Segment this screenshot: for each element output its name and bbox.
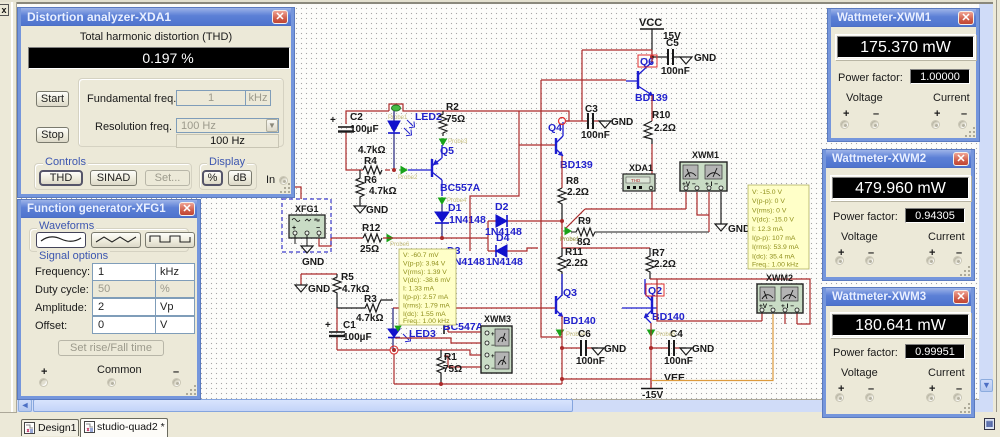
svg-text:R11: R11 xyxy=(565,247,583,258)
ground C6 xyxy=(592,344,626,355)
svg-text:4.7kΩ: 4.7kΩ xyxy=(369,186,396,197)
svg-text:2.2Ω: 2.2Ω xyxy=(654,123,676,134)
VCC rail xyxy=(639,17,681,50)
svg-text:R9: R9 xyxy=(578,216,591,227)
tooltip 1 (left) xyxy=(399,249,456,325)
svg-text:V: -60.7 mV: V: -60.7 mV xyxy=(403,252,439,259)
svg-text:Probe6: Probe6 xyxy=(390,242,410,248)
svg-text:C5: C5 xyxy=(666,38,679,49)
svg-text:25Ω: 25Ω xyxy=(360,244,379,255)
svg-text:100nF: 100nF xyxy=(664,356,693,367)
orange wire VEE to XWM2 xyxy=(652,314,773,381)
svg-text:+: + xyxy=(491,332,495,338)
svg-text:GND: GND xyxy=(366,205,388,216)
svg-text:Freq.: 1.00 kHz: Freq.: 1.00 kHz xyxy=(403,318,450,325)
capacitor C4 xyxy=(651,329,693,367)
bottom tab bar xyxy=(0,412,1000,437)
svg-text:Q5: Q5 xyxy=(440,145,454,157)
svg-text:GND: GND xyxy=(611,117,633,128)
ground C3 xyxy=(599,117,633,128)
svg-text:+: + xyxy=(491,354,495,360)
resistor R3 xyxy=(337,294,393,324)
wire: staircase to Q4 base column xyxy=(470,111,556,251)
capacitor C3 xyxy=(566,104,610,141)
svg-text:XWM2: XWM2 xyxy=(766,273,793,283)
svg-text:−: − xyxy=(491,366,495,372)
resistor R4 xyxy=(358,145,385,174)
probe C4 xyxy=(648,330,677,338)
svg-text:R4: R4 xyxy=(364,156,377,167)
capacitor C1 xyxy=(325,308,372,350)
wire: vertical to R11 bus xyxy=(561,221,563,248)
capacitor C6 xyxy=(562,329,605,367)
svg-text:I: 1.33 mA: I: 1.33 mA xyxy=(403,286,434,293)
wire R7 bottom loop to XWM2 I- xyxy=(650,279,810,324)
svg-text:D4: D4 xyxy=(496,232,510,244)
wire: Q4 emitter to R8 xyxy=(561,156,563,188)
probe above D1 xyxy=(439,197,468,204)
svg-text:Probe5: Probe5 xyxy=(656,332,676,338)
resistor R9 xyxy=(571,216,709,248)
svg-text:100nF: 100nF xyxy=(576,356,605,367)
svg-text:THD: THD xyxy=(631,178,641,183)
svg-text:100nF: 100nF xyxy=(661,66,690,77)
instrument icon XWM2 xyxy=(757,273,803,313)
transistor Q2 (mirrored) xyxy=(622,279,685,323)
wire R12 to diode network xyxy=(383,237,488,239)
svg-text:Freq.: 1.00 kHz: Freq.: 1.00 kHz xyxy=(752,262,799,269)
vertical scrollbar sliver + down arrow xyxy=(979,4,993,412)
resistor R6 xyxy=(356,170,396,206)
diode D1 xyxy=(435,202,486,238)
junction D1 bottom xyxy=(440,236,444,240)
XWM1 terminal wires xyxy=(697,192,709,232)
svg-text:+: + xyxy=(330,115,336,126)
svg-text:Q3: Q3 xyxy=(563,287,577,299)
resistor R11 xyxy=(558,247,588,296)
svg-text:100µF: 100µF xyxy=(350,124,379,135)
resistor R5 + ground xyxy=(295,272,369,308)
transistor Q1 stub (hidden by tooltip) + label xyxy=(443,320,487,334)
svg-text:I(p-p): 107 mA: I(p-p): 107 mA xyxy=(752,235,796,242)
svg-text:4.7kΩ: 4.7kΩ xyxy=(358,145,385,156)
svg-text:XDA1: XDA1 xyxy=(629,163,653,173)
svg-text:R10: R10 xyxy=(652,110,671,121)
svg-text:100nF: 100nF xyxy=(581,130,610,141)
junction mid bus xyxy=(560,219,564,223)
resistor R10 xyxy=(644,110,676,144)
svg-text:Probe2: Probe2 xyxy=(398,175,418,181)
resistor R1 xyxy=(437,350,462,386)
stub wire near XDA1 dialog xyxy=(287,187,301,199)
wire VCC bus to Q6 xyxy=(582,50,652,57)
svg-text:I(rms): 1.79 mA: I(rms): 1.79 mA xyxy=(403,302,450,309)
tooltip 2 (right) xyxy=(748,185,809,269)
svg-text:I(rms): 53.9 mA: I(rms): 53.9 mA xyxy=(752,244,799,251)
resistor R8 xyxy=(558,176,589,221)
svg-text:V(p-p): 0 V: V(p-p): 0 V xyxy=(752,198,785,205)
svg-text:I(dc): 1.55 mA: I(dc): 1.55 mA xyxy=(403,311,446,318)
svg-text:75Ω: 75Ω xyxy=(443,364,462,375)
svg-text:75Ω: 75Ω xyxy=(446,114,465,125)
resistor R12 xyxy=(360,223,382,255)
resistor R2 xyxy=(439,102,465,136)
svg-text:2.2Ω: 2.2Ω xyxy=(566,258,588,269)
LED3 xyxy=(388,308,436,350)
wire: C2 bottom to R4 node xyxy=(346,131,390,170)
svg-text:I(dc): 35.4 mA: I(dc): 35.4 mA xyxy=(752,253,795,260)
svg-text:−: − xyxy=(491,343,495,349)
svg-text:I(p-p): 2.57 mA: I(p-p): 2.57 mA xyxy=(403,294,449,301)
wire Q3 emitter column xyxy=(561,316,563,384)
diode D3 labels (mostly hidden by tooltip) xyxy=(447,245,485,268)
node ring Q4 collector xyxy=(559,118,566,125)
diode D2 xyxy=(485,201,522,238)
instrument icon XFG1 with selection box xyxy=(282,199,331,252)
svg-text:V(dc): -15.0 V: V(dc): -15.0 V xyxy=(752,217,794,224)
svg-text:D2: D2 xyxy=(495,201,509,213)
wire: C2 top to R2 top (with probe bump) xyxy=(346,104,569,124)
ground C4 xyxy=(680,344,714,355)
ground R6 xyxy=(354,205,388,216)
capacitor C2 xyxy=(330,112,379,135)
main vertical bus x=541 xyxy=(541,80,555,308)
resistor R7 xyxy=(646,248,676,279)
diode D4 xyxy=(486,232,523,268)
diode network loop wires xyxy=(488,221,562,251)
svg-text:C1: C1 xyxy=(343,320,356,331)
svg-text:R3: R3 xyxy=(364,294,377,305)
svg-text:1N4148: 1N4148 xyxy=(449,214,486,226)
svg-text:XFG1: XFG1 xyxy=(295,204,319,214)
transistor Q4 xyxy=(548,122,593,171)
svg-text:V(rms): 0 V: V(rms): 0 V xyxy=(752,207,787,214)
svg-text:BC557A: BC557A xyxy=(440,182,481,194)
probe at Q5 base xyxy=(398,167,418,182)
svg-text:R7: R7 xyxy=(652,248,665,259)
instrument icon XWM1 xyxy=(680,150,727,191)
svg-text:XWM1: XWM1 xyxy=(692,150,719,160)
ground XFG1 xyxy=(301,246,324,268)
svg-text:BD140: BD140 xyxy=(563,315,596,327)
transistor Q6 xyxy=(626,56,668,104)
svg-text:I: 12.3 mA: I: 12.3 mA xyxy=(752,226,783,233)
svg-text:+: + xyxy=(325,320,331,331)
svg-text:V(rms): 1.39 V: V(rms): 1.39 V xyxy=(403,269,447,276)
svg-text:LED2: LED2 xyxy=(415,111,442,123)
probe below R2 xyxy=(440,138,469,145)
svg-text:2.2Ω: 2.2Ω xyxy=(567,187,589,198)
svg-text:R8: R8 xyxy=(566,176,579,187)
svg-text:GND: GND xyxy=(692,344,714,355)
svg-text:1N4148: 1N4148 xyxy=(486,256,523,268)
svg-text:2.2Ω: 2.2Ω xyxy=(654,259,676,270)
bus to XWM1 V+ xyxy=(585,192,686,209)
svg-text:R12: R12 xyxy=(362,223,381,234)
XWM3 terminal wires xyxy=(395,338,487,367)
transistor Q5 xyxy=(408,145,481,196)
svg-text:XWM3: XWM3 xyxy=(484,314,511,324)
vertical x=582 to C3 node xyxy=(581,50,583,121)
diagonal wire to top bus xyxy=(566,209,585,228)
svg-text:BD139: BD139 xyxy=(560,159,593,171)
wire Q6 collector / emitter xyxy=(651,57,653,121)
bus to R11/R7 tops xyxy=(562,247,650,249)
svg-text:R2: R2 xyxy=(446,102,459,113)
wire Q6 base xyxy=(541,79,626,81)
VEE rail xyxy=(641,372,685,401)
probe Q3 emitter xyxy=(557,330,587,338)
svg-text:R5: R5 xyxy=(341,272,354,283)
svg-text:VEE: VEE xyxy=(664,372,685,384)
ground XWM1 xyxy=(715,192,750,235)
svg-text:D1: D1 xyxy=(448,202,462,214)
selection box Q2 xyxy=(646,284,664,296)
svg-text:4.7kΩ: 4.7kΩ xyxy=(356,313,383,324)
capacitor C5 xyxy=(652,38,690,77)
svg-text:V(dc): -38.6 mV: V(dc): -38.6 mV xyxy=(403,277,451,284)
svg-text:GND: GND xyxy=(728,224,750,235)
transistor Q3 xyxy=(556,274,596,327)
svg-text:GND: GND xyxy=(308,284,330,295)
svg-text:R1: R1 xyxy=(444,352,457,363)
svg-text:100µF: 100µF xyxy=(343,332,372,343)
svg-text:GND: GND xyxy=(302,257,324,268)
junction R4/LED2 xyxy=(392,168,396,172)
wire XFG1 out to R12 xyxy=(319,237,363,246)
svg-text:R6: R6 xyxy=(364,175,377,186)
svg-text:C3: C3 xyxy=(585,104,598,115)
wire Q2 emitter to VEE column xyxy=(650,323,652,388)
mid-low bus into Q3 base xyxy=(393,308,562,337)
svg-text:VCC: VCC xyxy=(639,17,662,29)
svg-text:Probe1: Probe1 xyxy=(388,115,408,121)
svg-text:C6: C6 xyxy=(578,329,591,340)
svg-text:V: -15.0 V: V: -15.0 V xyxy=(752,189,782,196)
LED2 xyxy=(388,111,442,170)
wire R10 down past XDA1 icon to bus xyxy=(651,144,653,209)
junction ring LED3/C1 xyxy=(337,346,398,384)
horizontal scrollbar xyxy=(17,399,979,412)
wire Q2 base riser and to XWM2 V+ xyxy=(657,279,762,321)
svg-text:GND: GND xyxy=(694,53,716,64)
selection box Q6 xyxy=(638,55,657,67)
probe left of R9 xyxy=(560,228,580,244)
svg-text:C2: C2 xyxy=(350,112,363,123)
svg-text:Q2: Q2 xyxy=(648,285,662,297)
node probe oval LED2 top xyxy=(388,105,408,121)
instrument icon XWM3 (vertical) xyxy=(481,314,512,373)
svg-text:GND: GND xyxy=(604,344,626,355)
instrument icon XDA1 xyxy=(623,163,655,191)
bottom bus xyxy=(394,379,651,384)
ground C5 xyxy=(680,53,716,64)
svg-text:V(p-p): 3.94 V: V(p-p): 3.94 V xyxy=(403,260,446,267)
probe right of R12 xyxy=(385,235,410,249)
